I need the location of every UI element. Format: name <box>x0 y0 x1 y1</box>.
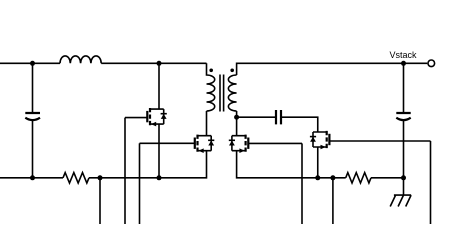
transistor Q4 (NMOS, gate right, mirrored) <box>310 131 330 149</box>
node C1 bottom junction <box>30 175 35 180</box>
wire sense line down off-page left <box>99 178 101 224</box>
wire output cap bottom lead <box>403 120 405 178</box>
node sense junction left <box>98 175 103 180</box>
wire top-left input rail <box>0 62 60 64</box>
terminal Vstack <box>428 60 435 67</box>
wire Q1 gate control line down off-page <box>124 118 126 224</box>
wire bottom-left rail <box>0 177 63 179</box>
transformer polarity dot secondary <box>230 69 234 73</box>
resistor R1 <box>63 173 89 183</box>
wire secondary top to Vstack rail <box>237 63 428 75</box>
capacitor C1 <box>25 113 40 120</box>
transistor Q3 (NMOS, gate right, mirrored) <box>229 135 249 153</box>
capacitor C3 (output) <box>396 113 410 120</box>
wire Q3 gate control line down off-page <box>301 143 303 224</box>
transistor Q1 (NMOS, gate left) <box>147 108 167 126</box>
node Vstack junction on top rail <box>401 61 406 66</box>
wire Q4 gate lead <box>329 140 430 142</box>
wire Q1 source down to bottom rail <box>158 124 160 178</box>
capacitor C2 (series) <box>276 110 281 124</box>
node sense junction right <box>330 175 335 180</box>
wire secondary cap right lead to Q4 drain <box>281 117 318 132</box>
transformer polarity dot primary <box>209 69 213 73</box>
svg-text:Vstack: Vstack <box>389 50 417 60</box>
wire Q4 gate control line down off-page <box>430 141 432 224</box>
wire Q2 gate control line down off-page <box>139 143 141 224</box>
transistor Q2 (NMOS, gate left) <box>195 135 215 153</box>
inductor L1 <box>60 56 101 63</box>
wire Q1 gate lead <box>125 117 147 119</box>
wire transformer primary bottom to Q2 drain <box>206 111 208 136</box>
node Q1 drain junction on top rail <box>157 61 162 66</box>
node input+ junction <box>30 61 35 66</box>
resistor R2 <box>346 173 371 183</box>
transformer T1 secondary winding <box>228 75 236 111</box>
node Q4 source junction <box>315 175 320 180</box>
wire Q2 gate lead <box>140 142 195 144</box>
ground (chassis) <box>390 195 411 206</box>
wire secondary cap left lead <box>237 116 276 118</box>
transformer T1 primary winding <box>207 63 215 111</box>
wire Q3 source to bottom-right rail <box>237 151 346 178</box>
wire output cap top lead <box>403 63 405 113</box>
wire Q1 drain from top rail <box>158 63 160 109</box>
capacitor C1 top lead <box>32 63 34 113</box>
node Q1 source junction on bottom rail <box>157 175 162 180</box>
node secondary bottom junction <box>234 115 239 120</box>
wire secondary bottom to Q3 drain <box>236 111 238 136</box>
wire R2 to output node <box>371 177 404 179</box>
wire Q4 source down to bottom rail <box>317 147 319 178</box>
wire bottom-left rail to Q2 source <box>89 151 207 178</box>
wire to ground <box>403 178 405 195</box>
wire top rail from inductor to transformer primary <box>101 62 206 64</box>
transformer T1 core <box>220 75 224 112</box>
wire sense line down off-page right <box>332 178 334 224</box>
wire Q3 gate lead <box>248 142 302 144</box>
node output bottom junction <box>401 175 406 180</box>
capacitor C1 bottom lead <box>32 120 34 178</box>
